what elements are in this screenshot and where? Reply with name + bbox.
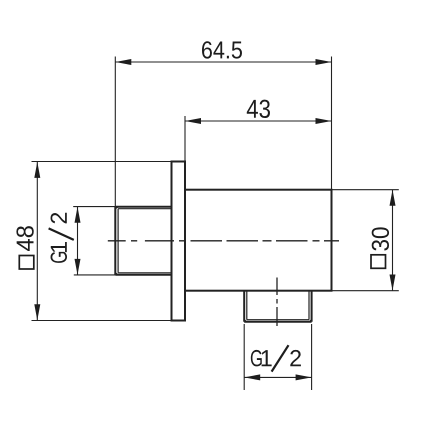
- bottom outlet chamfer diagonals: [244, 320, 311, 322]
- G1/2 left dim line: [77, 207, 79, 275]
- dim 64.5 extension line left: [114, 57, 116, 207]
- left inlet chamfer diagonals: [115, 207, 118, 275]
- square symbol of 48: [19, 256, 34, 270]
- G1/2 left extension lines: [73, 207, 115, 275]
- G1/2 bottom extension lines: [244, 324, 311, 390]
- dim 64.5 line: [115, 61, 331, 63]
- slash of G1/2 left: [49, 228, 74, 240]
- arrowheads 64.5: [115, 59, 131, 65]
- text 48: [16, 226, 33, 251]
- main body: [185, 190, 332, 291]
- arrowheads sq30: [390, 190, 396, 206]
- bottom outlet thread G1/2 outer: [244, 291, 311, 322]
- sq48 extension lines: [32, 162, 172, 321]
- bottom outlet thread inner lines: [247, 291, 309, 320]
- dim right extension line (64.5 / 43 / shared): [331, 57, 333, 190]
- arrowheads G1/2 bottom: [244, 374, 260, 380]
- text G1/2 left glyphs: [51, 213, 68, 263]
- flange (wall plate, side view): [172, 162, 186, 321]
- sq48 dim line: [36, 162, 38, 320]
- sq30 extension lines: [332, 190, 399, 291]
- arrowheads 43: [185, 118, 201, 124]
- text 64.5: [202, 41, 242, 58]
- left inlet thread inner lines: [118, 209, 171, 273]
- arrowheads sq48: [34, 162, 40, 178]
- text G1/2 bottom glyphs: [251, 350, 301, 367]
- text 43: [247, 100, 270, 118]
- slash of G1/2 bottom: [272, 345, 289, 371]
- text 30: [372, 227, 389, 250]
- horizontal centerline: [108, 240, 339, 242]
- square symbol of 30: [371, 255, 386, 268]
- G1/2 bottom dim line: [244, 376, 311, 378]
- dim 43 extension line left: [184, 116, 186, 162]
- vertical centerline (bottom outlet): [276, 278, 278, 327]
- left inlet thread G1/2 outer: [115, 207, 171, 275]
- arrowheads G1/2 left: [75, 207, 81, 223]
- sq30 dim line: [392, 190, 394, 291]
- dim 43 line: [185, 120, 332, 122]
